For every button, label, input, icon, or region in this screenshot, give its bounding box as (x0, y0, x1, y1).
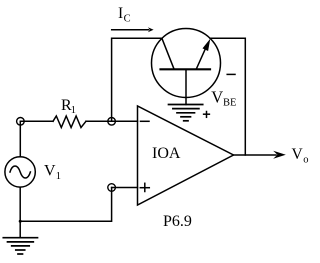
label VBE (211, 87, 236, 108)
wire node A down to source V1 (19, 121, 21, 157)
wire transistor emitter to output node (feedback) (210, 38, 245, 155)
svg-text:P6.9: P6.9 (163, 213, 192, 230)
wire bottom branch to node C (20, 188, 111, 222)
label Vo (292, 146, 309, 165)
svg-text:V: V (292, 146, 304, 163)
transistor Q1 collector lead (162, 38, 174, 69)
resistor R1 (53, 116, 86, 128)
svg-text:V: V (211, 87, 223, 106)
transistor Q1 body circle (152, 29, 221, 98)
ground at transistor base (169, 105, 203, 121)
wire op-amp output with arrow to Vo (234, 151, 286, 159)
label R1 (61, 97, 76, 116)
current arrow IC (112, 27, 154, 32)
node A input terminal (open circle) (17, 118, 25, 126)
ground at bottom left (3, 238, 37, 254)
wire node C to op-amp non-inverting input (112, 187, 138, 189)
op-amp inverting input marker (141, 120, 150, 122)
node C non-inverting-input junction (open circle) (108, 184, 116, 192)
label VBE minus sign (227, 73, 235, 75)
svg-text:V: V (44, 163, 56, 180)
svg-text:o: o (303, 154, 308, 165)
junction dot at bottom branch (19, 220, 22, 223)
op-amp non-inverting input marker (140, 183, 149, 191)
svg-text:IOA: IOA (152, 145, 181, 162)
label V1 (44, 163, 61, 182)
label IOA (152, 145, 181, 162)
transistor Q1 base bar (161, 68, 211, 70)
svg-text:BE: BE (223, 98, 236, 109)
wire node A to R1 (20, 120, 53, 122)
svg-text:1: 1 (71, 105, 76, 116)
svg-text:I: I (118, 5, 123, 22)
node B inverting-input junction (open circle) (108, 118, 116, 126)
svg-text:C: C (124, 14, 131, 25)
wire node B up and right to transistor collector (112, 38, 162, 121)
label IC (118, 5, 131, 24)
label VBE plus sign (204, 112, 210, 118)
source V1 (AC source circle) (5, 157, 35, 187)
label P6.9 (163, 213, 192, 230)
op-amp U1 triangle (138, 106, 234, 205)
source V1 sine wave (10, 166, 30, 178)
transistor Q1 emitter lead with arrow (196, 39, 210, 69)
wire R1 through node B to op-amp inverting input (86, 120, 138, 122)
transistor Q1 base lead (185, 69, 187, 104)
svg-text:1: 1 (56, 171, 61, 182)
wire source V1 to ground (19, 188, 21, 238)
